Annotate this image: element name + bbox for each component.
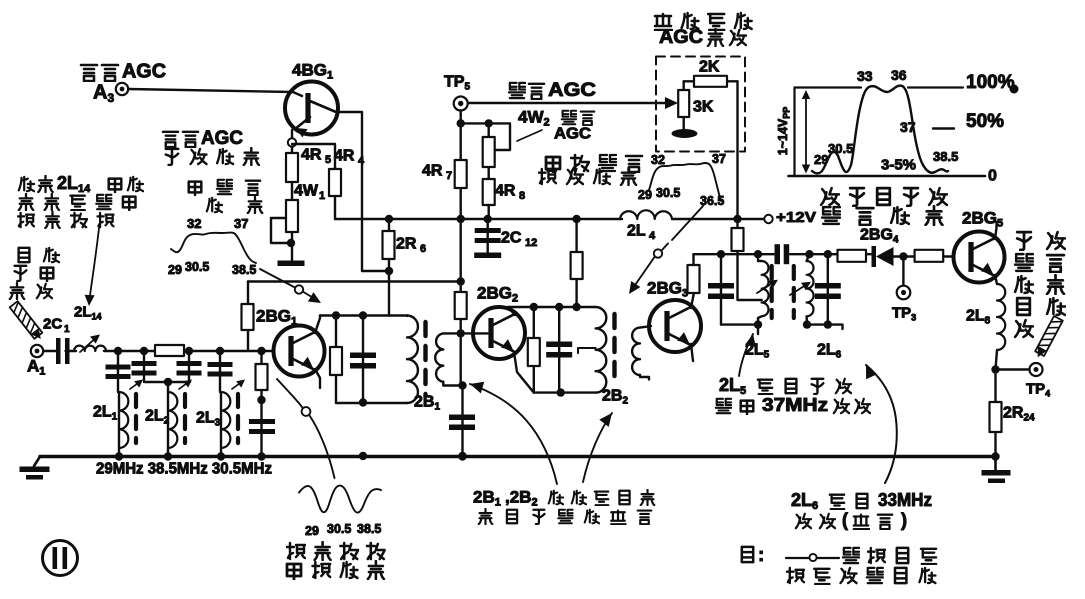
wire 4BG1 collector to 2R6 node — [336, 112, 389, 271]
tank damping resistor — [335, 316, 337, 404]
note 注: — [742, 547, 753, 562]
svg-text:AGC: AGC — [554, 126, 591, 143]
left ground symbol — [34, 457, 40, 467]
arrow 2L5 text to node — [745, 334, 756, 347]
2B1 secondary top to 2BG2 base — [443, 332, 488, 334]
svg-text:2C: 2C — [501, 230, 522, 247]
svg-text:4R: 4R — [495, 183, 516, 200]
2L5 trimmer arrow — [757, 281, 776, 293]
svg-text:30.5: 30.5 — [828, 141, 853, 156]
2L6 bottom wire — [807, 325, 843, 329]
2BG2 collector to tank — [508, 307, 515, 315]
capacitor at 2L5 left — [720, 254, 722, 324]
svg-text:29MHz 38.5MHz 30.5MHz: 29MHz 38.5MHz 30.5MHz — [96, 461, 272, 478]
secondary rail y=254 — [694, 253, 775, 255]
trap1 core dashes — [134, 394, 138, 443]
2BG2 tank top wire — [508, 306, 596, 308]
TP5 column — [460, 111, 462, 282]
node TP4 junction — [991, 365, 999, 373]
svg-text:4R: 4R — [422, 163, 443, 180]
label 一二中放合成曲线 — [546, 157, 560, 172]
transformer 2B1 secondary — [435, 333, 443, 381]
note text 表示需用检波探头观察 — [843, 548, 859, 563]
absorption double-dip curve — [299, 486, 381, 513]
wire 2K to +12V rail — [736, 81, 738, 228]
wire emitter node to 4R4 — [291, 147, 293, 155]
svg-text:30.5: 30.5 — [185, 260, 209, 274]
ground bus — [40, 455, 996, 459]
big arrow 2L6 text to 2L6 — [866, 365, 877, 379]
trap2 capacitors — [143, 351, 145, 382]
base network resistor — [260, 351, 262, 453]
ground blob in AGC box — [672, 129, 698, 138]
core dashes of 2L5 and 2L6 — [770, 266, 774, 318]
svg-text:4R: 4R — [334, 148, 355, 165]
svg-text:4W: 4W — [294, 183, 319, 200]
svg-text:AGC: AGC — [122, 61, 166, 83]
dashed box — [656, 57, 745, 152]
svg-text:1: 1 — [64, 324, 70, 335]
tank bottom wire — [534, 391, 596, 393]
trap1 capacitor — [117, 351, 119, 392]
junction dots on signal wire — [114, 347, 122, 355]
svg-text:33MHz: 33MHz — [878, 490, 932, 510]
svg-text:3K: 3K — [693, 99, 714, 116]
4BG1 feed into tank — [388, 219, 390, 316]
svg-text:30.5: 30.5 — [656, 186, 680, 200]
svg-text:2K: 2K — [699, 59, 720, 76]
base bias resistor of 2BG1 — [242, 304, 254, 330]
svg-text:36: 36 — [891, 67, 907, 83]
svg-text:38.5: 38.5 — [933, 149, 958, 164]
trap2 core dashes — [183, 394, 187, 443]
label 一中放曲线 — [189, 182, 202, 196]
svg-text:6: 6 — [420, 243, 426, 255]
4W2 bracket — [461, 123, 510, 150]
base network capacitor — [249, 419, 275, 424]
4W1 wiper bracket — [271, 218, 290, 243]
tank capacitor — [362, 316, 364, 403]
2BG2 base wire — [457, 329, 465, 337]
probe at TP4 — [1035, 316, 1063, 356]
2B1 secondary bottom wire — [443, 382, 462, 386]
2BG3 collector wire — [691, 295, 694, 308]
probe arrow from curve to 2BG3 — [672, 206, 703, 240]
label 注入扫频电压 — [19, 248, 30, 262]
trimmer arrow on 2L14 — [80, 336, 98, 352]
svg-text:12: 12 — [525, 237, 537, 249]
tank capacitor — [558, 307, 560, 393]
svg-text:AGC: AGC — [659, 27, 703, 48]
capacitor at 2L6 right — [827, 254, 829, 324]
svg-text:3-5%: 3-5% — [881, 157, 916, 174]
svg-text:4: 4 — [358, 155, 365, 167]
series resistor in signal wire — [155, 345, 184, 356]
circled number 11 — [43, 541, 78, 576]
right ground symbol — [994, 457, 997, 471]
arrow text to 2B1 junction — [470, 382, 484, 394]
svg-text:AGC: AGC — [201, 128, 243, 149]
2BG2 emitter bypass capacitor — [461, 386, 463, 457]
feed resistor from rail — [575, 219, 577, 307]
probe arrow 2BG1 to absorption curve — [277, 379, 302, 407]
svg-text:2C: 2C — [43, 316, 62, 333]
2BG5 emitter to 2L8 — [995, 275, 997, 284]
svg-text:29: 29 — [305, 524, 319, 538]
2B1 core dashes — [423, 322, 427, 396]
ground bar of 2C12 — [474, 253, 501, 259]
svg-text:): ) — [901, 510, 907, 530]
trap3 capacitor — [219, 351, 221, 392]
svg-text:37: 37 — [234, 216, 248, 231]
2BG2 base bias column — [460, 282, 462, 386]
resistor to 2BG5 base — [915, 250, 944, 262]
svg-text:0: 0 — [988, 168, 997, 185]
2BG1 collector wire to tank — [315, 316, 320, 334]
svg-text:100%: 100% — [966, 72, 1015, 93]
2B2 core dashes — [612, 314, 616, 386]
graph 100% level line — [795, 86, 862, 88]
AGC rail to 2BG1 base — [248, 280, 463, 282]
label 图象中放曲线观察点 — [1017, 232, 1031, 250]
label 吸收回路谐振曲线 — [287, 543, 305, 559]
transformer 2B2 secondary — [632, 328, 640, 375]
svg-text:4R: 4R — [301, 147, 322, 164]
svg-text:1: 1 — [319, 190, 325, 202]
label 外加可控AGC电压 — [655, 14, 672, 30]
2BG2 emitter wire — [514, 352, 534, 393]
svg-text:2L: 2L — [627, 223, 646, 240]
trap2 link wire — [145, 381, 190, 383]
svg-text:2BG3: 2BG3 — [647, 278, 688, 299]
2BG3 collector load resistor — [692, 254, 694, 295]
graph 0 level line — [789, 175, 986, 178]
label 典型的图象中放曲线 — [821, 188, 839, 205]
svg-text:AGC: AGC — [548, 80, 596, 101]
svg-text:4BG1: 4BG1 — [292, 60, 333, 81]
label 调节2L14来改变伴音中频吸收深度 — [19, 177, 34, 191]
injection probe at A1 — [10, 301, 43, 339]
svg-text:50%: 50% — [966, 111, 1004, 132]
svg-text:2BG2: 2BG2 — [477, 283, 518, 304]
2BG5 collector stub — [995, 222, 997, 239]
probe point on 4BG1 emitter — [291, 130, 293, 139]
svg-text:2R: 2R — [396, 236, 417, 253]
wire A3 to 4BG1 base — [129, 89, 303, 96]
2B2 secondary bottom hook — [640, 375, 649, 380]
svg-text:32: 32 — [187, 216, 201, 231]
svg-text:30.5: 30.5 — [327, 522, 351, 536]
label 高放AGC延迟调节 — [163, 132, 178, 147]
+12V rail — [335, 218, 622, 220]
svg-text:29: 29 — [168, 263, 182, 277]
2BG1 emitter stub — [315, 369, 320, 388]
svg-text:37: 37 — [712, 152, 726, 166]
svg-text::: : — [758, 545, 764, 566]
isolation resistor — [838, 250, 867, 262]
svg-text:2BG1: 2BG1 — [256, 306, 297, 327]
arrow text to 2B2 label — [599, 413, 612, 427]
trap3 core dashes — [236, 394, 240, 443]
graph left axis with arrows — [793, 88, 795, 177]
2L6 trimmer arrow — [790, 283, 809, 295]
svg-text:8: 8 — [519, 190, 525, 202]
tank damping resistor — [533, 307, 535, 393]
svg-text:7: 7 — [446, 170, 452, 182]
probe arrow from mini curve to 2B1 tank — [260, 269, 294, 287]
2L5 bottom wire — [721, 323, 758, 325]
svg-text:37: 37 — [900, 119, 916, 135]
50% label — [933, 127, 954, 129]
2B2 primary tap stub — [578, 348, 596, 353]
leader arrow from 调节2L14 text to 2L14 — [89, 228, 99, 303]
+12V terminal — [764, 215, 772, 223]
svg-text:29: 29 — [814, 152, 828, 167]
svg-text:4: 4 — [649, 230, 656, 242]
response curve — [812, 86, 948, 174]
svg-text:38.5: 38.5 — [232, 263, 256, 277]
wire to isolation resistor — [834, 253, 872, 255]
svg-text:38.5: 38.5 — [357, 522, 381, 536]
note symbol line-circle-line — [786, 557, 809, 559]
tank bottom wire — [336, 402, 407, 404]
label 中放AGC — [509, 83, 525, 98]
svg-text:+12V: +12V — [776, 209, 816, 226]
label 高放AGC (RF AGC) — [81, 65, 97, 81]
svg-text:32: 32 — [651, 153, 665, 167]
wire TP5 to AGC box (中放AGC line) — [468, 102, 668, 104]
svg-text:37MHz: 37MHz — [762, 395, 828, 415]
4W2 leader line — [517, 130, 542, 141]
svg-text:5: 5 — [325, 154, 331, 166]
2B2 secondary top to 2BG3 base — [640, 326, 651, 328]
ground of 4W1 — [278, 261, 305, 267]
2BG3 emitter stub — [691, 344, 693, 361]
tank top wire — [320, 314, 407, 316]
svg-text:(: ( — [842, 510, 848, 530]
series capacitor between 2L5 2L6 — [775, 244, 781, 264]
feed resistor from rail to 2L5 tap — [738, 228, 762, 300]
svg-text:33: 33 — [857, 68, 873, 84]
signal wire to 2BG1 base — [66, 350, 77, 352]
